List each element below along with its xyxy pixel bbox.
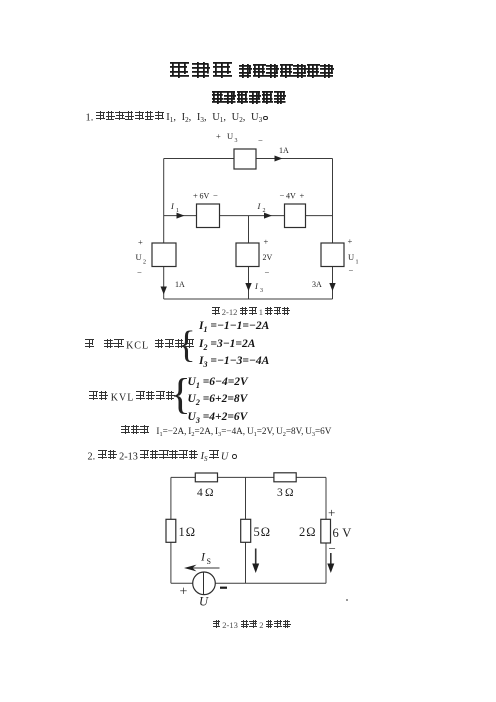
svg-text:I: I [170, 201, 175, 211]
wire: right vertical [332, 159, 334, 300]
resistor 1 ohm [166, 519, 176, 542]
svg-text:−: − [258, 135, 263, 145]
svg-text:+: + [138, 237, 143, 247]
wire: middle vertical [245, 477, 247, 583]
KCL brace [178, 326, 196, 364]
svg-text:+: + [180, 585, 188, 600]
svg-text:6V: 6V [200, 192, 210, 201]
svg-text:4 Ω: 4 Ω [197, 487, 214, 499]
svg-text:2: 2 [263, 208, 266, 214]
KVL brace [170, 373, 191, 417]
svg-text:−: − [137, 267, 142, 277]
problem 1 text: 1. 用支路电流法求 I1、I2、I3，U1、U2、U3。 [86, 111, 268, 124]
problem 2 text: 2. 求图 2-13 所示电路中的 Is 和 U。 [88, 450, 237, 464]
arrow 3A (right branch, down) [329, 283, 335, 291]
resistor 2 ohm (right branch) [321, 519, 331, 543]
svg-text:I: I [200, 550, 206, 564]
svg-text:5 Ω: 5 Ω [254, 525, 271, 539]
source 6V box [197, 204, 220, 228]
wire: top [171, 476, 326, 478]
arrow I1 [177, 213, 185, 219]
svg-text:−: − [349, 265, 354, 275]
svg-text:3: 3 [260, 288, 263, 294]
svg-text:2: 2 [143, 260, 146, 266]
current arrow below 5 ohm [255, 549, 257, 567]
svg-text:2V: 2V [263, 253, 273, 262]
wire: middle horizontal [164, 215, 333, 217]
svg-text:U: U [136, 252, 142, 262]
wire: left vertical [163, 159, 165, 300]
conclusion: 所以得：I1=-2A、I2=2A、I3=-4A、U1=2V、U2=8V、U3=6V [121, 425, 331, 437]
stray dot [346, 599, 348, 601]
caption fig 2-13: 图 2-13 习题 2 的电路 [213, 620, 291, 630]
svg-text:+: + [193, 191, 198, 201]
minus right of source [220, 587, 227, 589]
svg-text:+: + [328, 505, 335, 520]
svg-text:+: + [348, 236, 353, 246]
caption fig 2-12: 图 2-12 习题 1 的电路 [212, 307, 290, 317]
source 2V box (middle branch) [236, 243, 259, 267]
current arrow right branch [330, 553, 332, 566]
subtitle: 习题参考答案 [212, 91, 286, 107]
svg-text:I: I [254, 281, 259, 291]
svg-text:U: U [199, 595, 209, 609]
svg-text:−: − [329, 541, 336, 556]
svg-text:+: + [216, 131, 221, 141]
solve label: 解：根据 KCL 列方程组 [85, 339, 194, 353]
svg-text:U: U [348, 252, 354, 262]
svg-text:I: I [257, 201, 262, 211]
svg-text:−: − [265, 267, 270, 277]
svg-text:S: S [207, 557, 211, 566]
svg-text:+: + [264, 236, 269, 246]
svg-text:1: 1 [176, 208, 179, 214]
wire: bottom [164, 298, 333, 300]
arrow 1A (top, rightward) [275, 156, 283, 162]
svg-text:3: 3 [235, 138, 238, 144]
KVL equations [188, 374, 248, 426]
svg-text:1A: 1A [279, 146, 289, 155]
arrow I3 (middle branch, down) [245, 283, 251, 291]
Is direction arrow (leftward) [191, 567, 220, 569]
resistor 4 ohm [195, 473, 217, 482]
current source internal line [203, 572, 205, 595]
svg-text:1A: 1A [175, 280, 185, 289]
KCL equations [199, 318, 269, 371]
arrow 1A (left branch, down) [161, 287, 167, 295]
svg-text:6 V: 6 V [333, 526, 352, 540]
svg-text:−: − [280, 191, 285, 201]
svg-text:U: U [227, 131, 233, 141]
wire: middle vertical branch [248, 216, 250, 299]
arrow I2 [264, 213, 272, 219]
resistor 3 ohm [274, 473, 296, 482]
svg-text:2 Ω: 2 Ω [299, 525, 316, 539]
chapter title: 第二章 电路的分析方法 [170, 62, 334, 84]
source U2 box (left branch) [152, 243, 176, 267]
current source Is circle [193, 572, 216, 595]
resistor 5 ohm [241, 519, 251, 542]
source U1 box (right branch) [321, 243, 344, 267]
svg-text:+: + [300, 191, 305, 201]
wire: bottom [171, 582, 326, 584]
svg-text:1 Ω: 1 Ω [179, 525, 196, 539]
wire: right vertical [325, 477, 327, 583]
svg-text:3 Ω: 3 Ω [277, 487, 294, 499]
根据 KVL 列方程组 [89, 391, 175, 405]
source U3 box [234, 149, 256, 169]
svg-text:−: − [213, 191, 218, 201]
wire: top [164, 158, 333, 160]
svg-text:1: 1 [356, 260, 359, 266]
wire: left vertical [170, 477, 172, 583]
svg-text:4V: 4V [286, 192, 296, 201]
source 4V box [285, 204, 306, 228]
svg-text:3A: 3A [312, 280, 322, 289]
